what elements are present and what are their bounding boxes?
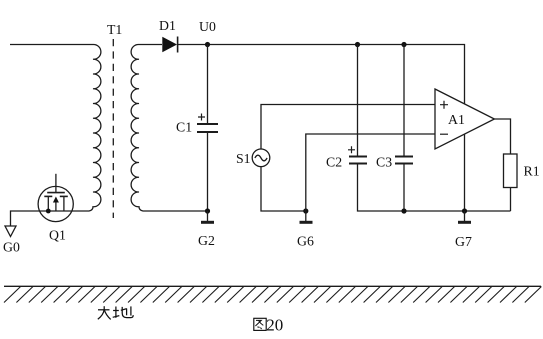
node U0 junction dot <box>205 42 210 47</box>
svg-text:G7: G7 <box>455 234 472 249</box>
ground G2 <box>201 211 214 222</box>
op-amp minus input mark <box>440 133 448 135</box>
wire R1 bottom <box>510 188 512 212</box>
wire S1 top to op-amp plus input <box>261 105 435 150</box>
capacitor C3 <box>395 157 413 164</box>
ground G7 <box>458 211 471 222</box>
capacitor C1 <box>197 124 218 132</box>
transformer T1 core (dashed) <box>112 39 114 218</box>
node G7 junction dot <box>462 208 467 213</box>
wire G6 node to op-amp minus input <box>306 134 435 211</box>
earth line <box>4 285 541 287</box>
svg-text:C2: C2 <box>326 155 342 170</box>
node Q1 source junction dot <box>46 209 51 214</box>
wire U0 to C1 <box>207 45 209 124</box>
wire C3 bottom <box>403 164 405 212</box>
C1 plus polarity <box>198 114 205 121</box>
svg-text:U0: U0 <box>199 19 216 34</box>
svg-text:R1: R1 <box>524 164 540 179</box>
node C3 top rail junction dot <box>401 42 406 47</box>
wire S1 bottom to G6 <box>261 167 306 211</box>
op-amp plus input mark <box>440 101 448 109</box>
C2 plus polarity <box>348 146 355 153</box>
label earth (da) <box>98 306 111 319</box>
svg-text:A1: A1 <box>448 112 465 127</box>
wire top rail <box>178 45 465 105</box>
capacitor C2 <box>349 157 367 164</box>
earth hatching <box>4 287 541 303</box>
wire op-amp output to R1 <box>494 119 510 154</box>
wire rail to C2 <box>357 45 359 157</box>
transistor Q1 (MOSFET) <box>38 174 73 222</box>
transformer T1 primary winding <box>88 44 101 211</box>
wire rail to C3 <box>403 45 405 157</box>
svg-text:Q1: Q1 <box>49 228 66 243</box>
svg-text:G6: G6 <box>297 234 314 249</box>
svg-text:D1: D1 <box>159 18 176 33</box>
svg-text:S1: S1 <box>236 151 251 166</box>
wire Q1 row to left winding <box>11 211 89 226</box>
node G6 junction dot <box>303 208 308 213</box>
op-amp A1 <box>435 89 494 149</box>
node C2 top rail junction dot <box>355 42 360 47</box>
ground G6 <box>300 211 313 222</box>
wire C2 bottom to ground rail <box>358 164 511 212</box>
resistor R1 <box>504 154 518 188</box>
label figure 20 (tu) <box>254 318 266 330</box>
svg-text:C3: C3 <box>376 155 392 170</box>
node C3 bottom junction dot <box>401 208 406 213</box>
wire secondary bottom to G2 <box>144 210 208 212</box>
node G2 junction dot <box>205 208 210 213</box>
svg-text:C1: C1 <box>176 120 192 135</box>
svg-text:20: 20 <box>266 316 283 335</box>
wire C1 to ground node <box>207 132 209 211</box>
ground G0 (arrow) <box>5 226 16 237</box>
wire top-left primary lead <box>10 44 90 46</box>
svg-text:G2: G2 <box>198 233 215 248</box>
svg-text:G0: G0 <box>3 240 20 255</box>
source S1 <box>252 149 270 167</box>
wire op-amp V- to ground rail <box>464 134 466 211</box>
diode D1 <box>162 37 177 53</box>
label earth (di) <box>113 306 134 317</box>
transformer T1 secondary winding <box>131 44 162 211</box>
svg-text:T1: T1 <box>107 22 122 37</box>
